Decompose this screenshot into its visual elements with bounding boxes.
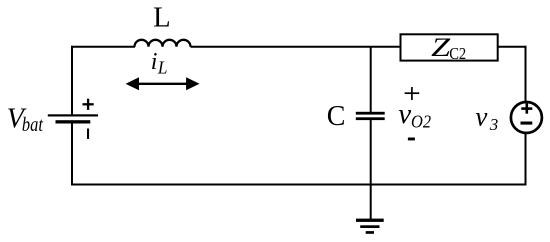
wire box to top-right corner [498, 46, 527, 103]
svg-text:v: v [475, 102, 487, 132]
battery Vbat [48, 114, 98, 123]
svg-text:C2: C2 [449, 44, 466, 63]
svg-text:L: L [153, 2, 171, 33]
current arrow iL [126, 77, 200, 90]
svg-text:i: i [151, 49, 158, 75]
svg-text:Z: Z [431, 33, 451, 62]
wire left branch lower [71, 121, 73, 186]
svg-text:O2: O2 [411, 111, 431, 131]
impedance box ZC2 [401, 34, 498, 60]
svg-text:bat: bat [22, 114, 43, 136]
source v3 [511, 102, 542, 133]
label vO2 [398, 98, 431, 131]
svg-text:3: 3 [489, 115, 499, 134]
minus sign of vO2 [408, 138, 415, 141]
label Vbat [7, 104, 43, 137]
wire source to bottom-right corner [525, 133, 527, 186]
inductor L [135, 40, 191, 47]
wire top-left horizontal [71, 46, 135, 48]
label iL [151, 49, 168, 77]
svg-text:v: v [398, 98, 411, 130]
plus sign of vO2 [405, 87, 420, 100]
label v3 [475, 102, 498, 135]
battery plus sign [83, 99, 94, 110]
ground [356, 219, 384, 234]
svg-text:C: C [327, 101, 346, 132]
wire bottom horizontal [71, 184, 527, 186]
wire capacitor branch lower and ground stem [370, 120, 372, 221]
wire left branch upper [71, 46, 73, 115]
wire capacitor branch upper [370, 47, 372, 113]
capacitor C [356, 112, 385, 120]
plus sign inside source [521, 104, 532, 114]
svg-text:L: L [157, 57, 168, 77]
minus sign inside source [521, 122, 533, 125]
wire inductor to node [191, 46, 371, 48]
battery minus sign [87, 129, 89, 139]
label ZC2 [431, 33, 466, 63]
wire node to impedance box [371, 46, 401, 48]
